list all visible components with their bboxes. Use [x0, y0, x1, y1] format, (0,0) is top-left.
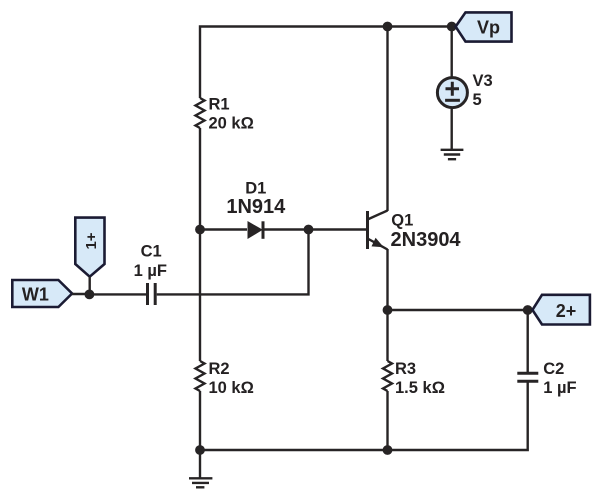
voltage source V3 (5 V) [437, 72, 492, 109]
node: 2+ / C2 junction [523, 305, 533, 315]
wire: C2 bottom to bottom rail corner [200, 381, 528, 450]
svg-text:C1: C1 [141, 243, 162, 261]
node: W1 / 1+ junction [85, 290, 95, 300]
svg-text:10 kΩ: 10 kΩ [209, 379, 254, 397]
node: ground junction [195, 445, 205, 455]
transistor Q1 (2N3904) [368, 211, 462, 251]
svg-text:20 kΩ: 20 kΩ [209, 115, 254, 133]
wire: top rail from R1 top to Vp node [200, 27, 452, 99]
flag 1+ [75, 218, 104, 295]
svg-text:1 µF: 1 µF [543, 379, 576, 397]
resistor R1 [196, 96, 254, 133]
wire: R1 bottom to R2 top (through diode node) [199, 128, 201, 361]
flag W1 [12, 280, 89, 307]
svg-text:1 µF: 1 µF [134, 262, 167, 280]
svg-text:R2: R2 [209, 360, 230, 378]
capacitor C2 (1 uF) [517, 360, 576, 397]
svg-text:Q1: Q1 [391, 211, 413, 229]
node: top rail / V3 / Vp junction [447, 22, 457, 32]
capacitor C1 (1 uF) [89, 243, 167, 305]
svg-text:W1: W1 [22, 285, 49, 305]
node: emitter / output junction [383, 305, 393, 315]
resistor R2 [196, 360, 254, 397]
diode D1 (1N914) [200, 180, 309, 239]
wire: Vp node down to V3 [451, 27, 453, 79]
wire: Q1 collector up to top rail [386, 27, 388, 212]
svg-text:R1: R1 [209, 96, 230, 114]
ground (below V3) [441, 150, 464, 159]
svg-text:5: 5 [473, 91, 482, 109]
wire: emitter node to 2+ node [388, 309, 528, 311]
wire: 2+ node down to C2 [527, 310, 529, 373]
svg-text:Vp: Vp [477, 18, 500, 38]
svg-text:2N3904: 2N3904 [391, 229, 462, 251]
flag 2+ [532, 295, 590, 325]
wire: R3 bottom to bottom rail [386, 391, 388, 450]
node: junction R1/R2/D1 [195, 225, 205, 235]
ground (bottom) [189, 450, 212, 487]
svg-text:1N914: 1N914 [226, 196, 286, 218]
svg-text:V3: V3 [473, 72, 493, 90]
node: R3 / bottom rail junction [383, 445, 393, 455]
svg-text:D1: D1 [245, 180, 266, 198]
svg-text:2+: 2+ [556, 301, 577, 321]
svg-text:R3: R3 [395, 360, 416, 378]
wire: base wire from node to Q1 [309, 228, 367, 230]
wire: Q1 emitter down through node to R3 [386, 249, 388, 361]
resistor R3 [383, 360, 445, 397]
wire: R2 bottom to ground node [199, 391, 201, 450]
wire: V3 bottom to ground [451, 108, 453, 150]
flag Vp [456, 12, 512, 41]
wire: C1 right plate to diode node branch [157, 230, 309, 295]
svg-text:1+: 1+ [83, 232, 100, 249]
svg-text:C2: C2 [543, 360, 564, 378]
node: collector / top rail junction [383, 22, 393, 32]
svg-text:1.5 kΩ: 1.5 kΩ [395, 379, 445, 397]
node: junction D1/base/C1 branch [304, 225, 314, 235]
